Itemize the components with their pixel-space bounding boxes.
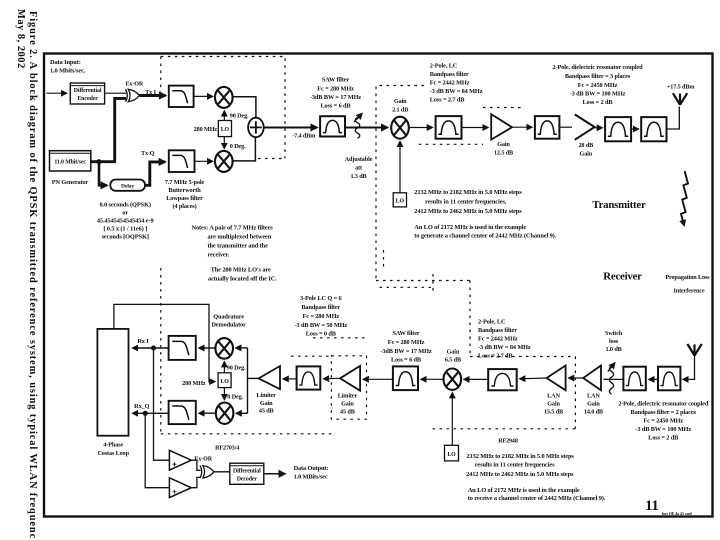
wire PN out (thick) (91, 160, 116, 163)
dashed box limiter2 (331, 356, 366, 419)
wire mixer RxQ to LPF (199, 412, 216, 414)
dashed line RX synth left edge (469, 281, 471, 357)
filter F1 lowpass Tx I (169, 86, 194, 107)
svg-text:6.5 dB: 6.5 dB (445, 357, 461, 364)
dashed segment under 3-pole text (313, 337, 369, 339)
svg-text:Gain: Gain (447, 349, 460, 356)
svg-text:LO: LO (221, 127, 230, 133)
wire summer to SAW (thick) (264, 126, 317, 128)
dashed line IC left edge bottom (160, 268, 162, 434)
wire mixer1 to LO (arrow up) (223, 111, 225, 121)
svg-text:-3 dB BW = 100 MHz: -3 dB BW = 100 MHz (635, 426, 691, 433)
svg-text:actually located off the IC.: actually located off the IC. (208, 276, 277, 283)
node junction RxQ (143, 411, 148, 416)
comparator U4 (169, 450, 191, 470)
svg-text:Differential: Differential (233, 469, 261, 475)
dashed segment TX modulator bottom right (258, 158, 285, 160)
wire LPF TxI to mixer (194, 95, 213, 97)
filter F2 lowpass Tx Q (169, 150, 195, 172)
wire xor2 to differential decoder (214, 471, 230, 473)
wire xor to LPF TxI (thick) (139, 94, 165, 97)
svg-text:Costas Loop: Costas Loop (97, 450, 129, 457)
costas loop box (97, 329, 128, 436)
wire chevron to BPF3 (595, 127, 603, 129)
svg-text:Transmitter: Transmitter (592, 199, 646, 211)
svg-text:Rx I: Rx I (137, 338, 149, 345)
wire LPF TxQ to mixer2 (195, 160, 213, 162)
svg-text:280 MHz: 280 MHz (194, 126, 218, 133)
svg-text:Encoder: Encoder (77, 96, 98, 102)
filter F7 BPF dielectric 2 (641, 117, 666, 141)
svg-text:1.3 dB: 1.3 dB (350, 173, 366, 180)
page frame (44, 54, 713, 517)
gate U2 XOR (126, 89, 140, 101)
wire BPF2 to gain chevron (559, 126, 572, 128)
svg-text:Bandpass filter = 3 places: Bandpass filter = 3 places (565, 73, 631, 80)
svg-text:-3 dB BW = 84 MHz: -3 dB BW = 84 MHz (430, 88, 483, 95)
svg-text:-3 dB BW = 84 MHz: -3 dB BW = 84 MHz (478, 344, 531, 351)
oscillator LO2 (393, 193, 406, 207)
dashed segment x433 vertical (432, 274, 434, 291)
svg-text:SAW filter: SAW filter (392, 330, 419, 337)
filter F4 BPF 2442 (436, 116, 462, 139)
svg-text:12.5 dB: 12.5 dB (494, 150, 513, 157)
wire BPF1 to amp (462, 127, 489, 129)
amplifier A4 LAN 15.5dB (547, 366, 566, 391)
svg-text:An LO of 2172 MHz is used in: An LO of 2172 MHz is used in the example (468, 487, 580, 494)
wire bus to mixer RxQ (236, 412, 247, 414)
svg-text:Loss = 0 dB: Loss = 0 dB (306, 331, 337, 338)
filter F11 SAW RX (393, 366, 418, 390)
wire SAW to attenuator to mixer3 (345, 126, 388, 128)
node junction PN (96, 159, 101, 164)
svg-text:Data Input:: Data Input: (50, 59, 81, 66)
wire limiter1 to demod bus (248, 377, 259, 379)
label LAN Gain 15.5 (544, 393, 563, 416)
svg-text:att: att (355, 165, 363, 172)
amplifier A2 28dB chevron (575, 114, 595, 139)
filter F13 LPF RxI (169, 336, 196, 360)
wire delay to LPF TxQ (thick) (145, 162, 165, 185)
svg-text:2-Pole, LC: 2-Pole, LC (430, 63, 458, 70)
MARGIN TEXTS (15, 9, 38, 539)
svg-text:Limiter: Limiter (256, 392, 276, 399)
wire PN up to xor (thick) (115, 98, 126, 161)
label 28 dB Gain (578, 142, 593, 158)
wire BPF RX2 through switch (604, 378, 624, 380)
wire mixer2 to summer (233, 137, 256, 161)
svg-text:15.5 dB: 15.5 dB (544, 409, 563, 416)
label SAW filter TX (310, 77, 361, 110)
label 4-Phase Costas Loop (97, 442, 129, 458)
mixer M4 downconverter (444, 369, 462, 390)
svg-text:280 MHz: 280 MHz (182, 380, 206, 387)
label delay seconds (97, 202, 154, 241)
wire LPF RxQ to costas (133, 412, 169, 414)
svg-text:Fc = 2442 MHz: Fc = 2442 MHz (478, 336, 518, 343)
label 2-Pole dielectric TX (552, 64, 643, 106)
svg-text:14.0 dB: 14.0 dB (584, 409, 603, 416)
svg-text:Figure 2. A block diagram of: Figure 2. A block diagram of the QPSK tr… (27, 11, 38, 539)
wire BPF LC to mixer RX (464, 378, 488, 380)
amplifier A3 LAN 14dB (583, 366, 601, 391)
amplifier A5 limiter 2 (340, 366, 360, 391)
svg-text:PN Generator: PN Generator (52, 179, 89, 186)
svg-text:Adjustable: Adjustable (345, 156, 373, 163)
svg-text:Notes: A pair of 7.7 MHz filte: Notes: A pair of 7.7 MHz filters (192, 225, 274, 232)
dashed line IC bottom (RF2703) (161, 433, 336, 435)
svg-text:Ex-OR: Ex-OR (125, 82, 143, 88)
svg-text:11: 11 (645, 498, 659, 514)
svg-text:receiver.: receiver. (208, 252, 230, 259)
wire LO4 to mixer RxQ (arrow down) (223, 388, 225, 400)
label 3-Pole LC BPF (295, 295, 348, 338)
wire LO3 to mixer RX (arrow up) (451, 393, 453, 446)
wire limiter2 to BPF 280 (324, 377, 341, 380)
label Gain 2.1 dB (392, 98, 408, 114)
svg-text:the transmitter and the: the transmitter and the (208, 243, 269, 250)
delay element (110, 180, 145, 191)
amplifier A6 limiter 1 (259, 366, 280, 389)
svg-text:Gain: Gain (580, 151, 593, 158)
antenna RX (687, 344, 701, 356)
svg-text:Loss = 6 dB: Loss = 6 dB (320, 103, 351, 110)
svg-text:2-Pole, LC: 2-Pole, LC (478, 319, 506, 326)
svg-text:Quadrature: Quadrature (213, 314, 244, 321)
filter F8 BPF dielectric RX 1 (658, 367, 680, 391)
wire BPF3 to BPF4 (631, 128, 638, 130)
label 2-Pole LC TX (430, 63, 483, 104)
wire BPF 280 to limiter1 (283, 378, 296, 380)
wire comp1 to xor2 (191, 460, 200, 470)
svg-text:The 280 MHz LO's are: The 280 MHz LO's are (211, 267, 271, 274)
svg-text:45.4545454545454 e-9: 45.4545454545454 e-9 (97, 218, 154, 225)
svg-text:Fc = 2450 MHz: Fc = 2450 MHz (643, 418, 683, 425)
svg-text:Receiver: Receiver (603, 271, 642, 283)
svg-text:Loss = 2.7 dB: Loss = 2.7 dB (430, 97, 465, 104)
wire LO2 to mixer3 (arrow up) (399, 142, 401, 193)
wire decoder to data output (264, 473, 285, 475)
mixer M1 (215, 87, 233, 108)
svg-text:LO: LO (396, 199, 405, 205)
encoder U1 Differential Encoder (70, 83, 104, 104)
label Gain 12.5 dB (494, 141, 513, 157)
svg-text:Bandpass filter: Bandpass filter (301, 304, 340, 311)
wire BPF4 to TX antenna (667, 107, 680, 130)
svg-text:Gain: Gain (547, 401, 560, 408)
svg-text:LAN: LAN (547, 393, 560, 400)
filter F6 BPF dielectric 1 (605, 117, 631, 141)
filter F5 BPF 2442 second (535, 116, 560, 139)
mixer M5 RxI (215, 338, 233, 359)
switch symbol (608, 363, 615, 394)
filter F14 LPF RxQ (169, 401, 196, 424)
dashed line RX synth top (470, 356, 575, 358)
amplifier A1 (491, 114, 512, 139)
mixer M6 RxQ (216, 403, 234, 424)
oscillator LO4 (218, 373, 231, 388)
svg-text:(4 places): (4 places) (172, 203, 196, 210)
svg-text:Butterworth: Butterworth (168, 187, 201, 194)
svg-text:45 dB: 45 dB (259, 408, 274, 415)
svg-text:to receive a channel center of: to receive a channel center of 2442 MHz … (468, 495, 606, 502)
svg-text:0 Deg.: 0 Deg. (227, 394, 243, 401)
svg-text:results in 11 center frequenc: results in 11 center frequencies, (425, 199, 507, 206)
svg-text:Gain: Gain (260, 400, 273, 407)
svg-text:Ex-OR: Ex-OR (194, 457, 212, 463)
svg-text:seconds [OQPSK]: seconds [OQPSK] (102, 234, 149, 241)
node junction RxI (151, 346, 156, 351)
svg-text:Fc = 2442 MHz: Fc = 2442 MHz (430, 80, 470, 87)
dashed line RX synth right (574, 357, 576, 429)
svg-text:2.1 dB: 2.1 dB (392, 107, 408, 114)
svg-text:Lowpass filter: Lowpass filter (166, 195, 203, 202)
svg-text:Rx_Q: Rx_Q (134, 403, 149, 410)
svg-text:LAN: LAN (587, 393, 600, 400)
svg-text:Propagation Loss: Propagation Loss (665, 274, 710, 281)
label 7.7MHz filter note (165, 179, 205, 210)
wire bus to mixer RxI (236, 347, 248, 349)
svg-text:Gain: Gain (497, 141, 510, 148)
svg-text:2132 MHz to 2182 MHz in 5.0: 2132 MHz to 2182 MHz in 5.0 MHz steps (414, 189, 522, 196)
svg-text:Loss = 2 dB: Loss = 2 dB (582, 99, 613, 106)
wire costas feedback to LO4 (114, 304, 215, 381)
gate U6 XOR output (200, 466, 214, 478)
svg-text:Switch: Switch (605, 330, 623, 337)
svg-text:Gain: Gain (587, 401, 600, 408)
svg-text:90 Deg.: 90 Deg. (227, 364, 246, 371)
wire mixer1 to summer (233, 97, 256, 118)
svg-text:to generate a channel center o: to generate a channel center of 2442 MHz… (414, 233, 556, 240)
dashed segment above TX amp (483, 107, 524, 109)
wire encoder to xor (105, 92, 126, 94)
attenuator adjustable (354, 114, 362, 139)
svg-text:results in 11 center frequenc: results in 11 center frequencies (475, 462, 555, 469)
svg-text:28 dB: 28 dB (578, 142, 593, 149)
svg-text:90 Deg.: 90 Deg. (230, 112, 249, 119)
svg-text:-3dB BW = 17 MHz: -3dB BW = 17 MHz (310, 94, 361, 101)
generator PN box 11.0 Mbit/sec (50, 151, 91, 171)
wire junction down to delay (thick) (99, 162, 107, 186)
wire mixer RX to SAW RX (421, 378, 443, 380)
wire RX antenna down to BPF (683, 356, 695, 380)
lightning bolt propagation (681, 171, 688, 226)
svg-text:+17.5 dBm: +17.5 dBm (667, 83, 695, 90)
svg-text:Loss = 2 dB: Loss = 2 dB (648, 435, 679, 442)
decoder U7 Differential Decoder (230, 463, 264, 484)
svg-text:SAW filter: SAW filter (322, 77, 349, 84)
svg-text:Limiter: Limiter (338, 393, 358, 400)
svg-text:Fc = 280 MHz: Fc = 280 MHz (388, 339, 425, 346)
label notes multiplexed (192, 225, 278, 283)
label Quadrature Demodulator (211, 314, 246, 329)
label RX synth frequencies (466, 453, 606, 502)
dashed box TX synthesizer (376, 86, 424, 281)
oscillator LO3 (445, 445, 459, 461)
dashed segment x383 vertical (383, 250, 385, 271)
filter F3 SAW 280MHz TX (320, 116, 345, 136)
svg-text:7.7 MHz 5-pole: 7.7 MHz 5-pole (165, 179, 205, 186)
dashed segment left of limiter2 (291, 355, 331, 357)
svg-text:Delay: Delay (121, 184, 134, 190)
svg-text:2412 MHz to 2462 MHz in 5.0: 2412 MHz to 2462 MHz in 5.0 MHz steps (466, 471, 574, 478)
label SAW filter RX (380, 330, 431, 364)
label 2-Pole LC RX (478, 319, 531, 360)
label Limiter Gain 45dB (1) (256, 392, 276, 415)
label 2-Pole dielectric RX (618, 401, 709, 442)
svg-text:2-Pole, dielectric resonator: 2-Pole, dielectric resonator coupled (552, 64, 643, 71)
label LAN Gain 14.0 (584, 393, 603, 416)
label TX synth frequencies (414, 189, 556, 240)
wire comp2 to xor2 (191, 477, 200, 487)
wire mixer3 to BPF1 (409, 127, 433, 129)
svg-text:RF2948: RF2948 (498, 438, 518, 444)
svg-text:loss: loss (609, 338, 619, 345)
svg-text:3-Pole LC Q = 6: 3-Pole LC Q = 6 (300, 295, 342, 302)
filter F12 BPF 280 RX (297, 366, 321, 389)
label Switch loss (605, 330, 623, 353)
wire RxQ junction to comparator2 (145, 413, 169, 487)
svg-text:Differential: Differential (74, 88, 102, 94)
wire data input arrow (47, 92, 67, 94)
wire SAW RX to limiter2 (363, 378, 393, 380)
svg-text:Bandpass filter = 2 places: Bandpass filter = 2 places (631, 409, 697, 416)
label Limiter Gain 45dB (2) (338, 393, 358, 416)
svg-text:Loss = 6 dB: Loss = 6 dB (391, 357, 422, 364)
label Gain 6.5 dB (445, 349, 461, 364)
svg-text:Gain: Gain (341, 401, 354, 408)
svg-text:Tx Q: Tx Q (141, 150, 155, 157)
wire switch to LAN amp2 (604, 378, 607, 380)
svg-text:Interference: Interference (674, 288, 705, 295)
wire mixer RxI to LPF (199, 347, 215, 349)
mixer M3 upconverter (391, 117, 409, 139)
wire RxI junction to comparator1 (154, 348, 170, 460)
svg-text:RF2703/4: RF2703/4 (215, 446, 239, 452)
node Data Input (50, 59, 86, 75)
svg-text:1.0 dB: 1.0 dB (606, 346, 622, 353)
svg-text:LO: LO (447, 452, 456, 458)
comparator U5 (169, 478, 191, 498)
svg-text:An LO of 2172 MHz is used in: An LO of 2172 MHz is used in the example (414, 224, 526, 231)
filter F10 BPF LC RX (488, 369, 517, 390)
svg-text:are multiplexed between: are multiplexed between (208, 234, 272, 241)
svg-text:Loss = 2.7 dB: Loss = 2.7 dB (478, 353, 513, 360)
label Data Output (294, 465, 329, 481)
svg-text:Fc = 280 MHz: Fc = 280 MHz (317, 85, 354, 92)
svg-text:Gain: Gain (394, 98, 407, 105)
svg-text:Demodulator: Demodulator (211, 322, 246, 329)
svg-text:Bandpass filter: Bandpass filter (430, 71, 469, 78)
wire demod bus vertical (247, 348, 249, 413)
oscillator LO1 280 MHz (218, 121, 231, 137)
svg-text:Fc = 2450 MHz: Fc = 2450 MHz (578, 82, 618, 89)
dashed segment TX synthesizer bottom (376, 280, 470, 282)
svg-text:4-Phase: 4-Phase (103, 442, 123, 449)
wire LO4 to mixer RxI (arrow up) (223, 362, 225, 373)
svg-text:fort OE 4a 41 conf: fort OE 4a 41 conf (662, 511, 693, 516)
filter F9 BPF dielectric RX 2 (623, 367, 645, 391)
svg-text:Data Output:: Data Output: (294, 465, 329, 472)
svg-text:-7.4 dBm: -7.4 dBm (292, 133, 316, 140)
svg-text:2412 MHz to 2462 MHz in 5.0: 2412 MHz to 2462 MHz in 5.0 MHz steps (414, 208, 522, 215)
svg-text:0.0 seconds (QPSK): 0.0 seconds (QPSK) (99, 202, 151, 209)
svg-text:11.0 Mbit/sec: 11.0 Mbit/sec (54, 160, 86, 166)
svg-text:[ 0.5 x (1 / 11e6) ]: [ 0.5 x (1 / 11e6) ] (103, 226, 147, 233)
label adjustable att (345, 156, 373, 180)
dashed line RX synth bottom (433, 428, 576, 430)
svg-text:1.0 Mbits/sec.: 1.0 Mbits/sec. (50, 68, 86, 75)
mixer M2 (215, 151, 233, 172)
svg-text:2132 MHz to 2182 MHz in 5.0: 2132 MHz to 2182 MHz in 5.0 MHz steps (467, 453, 575, 460)
svg-text:Bandpass filter: Bandpass filter (478, 327, 517, 334)
svg-text:-3 dB BW = 50 MHz: -3 dB BW = 50 MHz (295, 322, 348, 329)
antenna TX (673, 93, 687, 105)
dashed segment under TX BPF1 (419, 143, 483, 145)
wire BPF RX1 to BPF RX2 (649, 378, 658, 380)
svg-text:or: or (122, 210, 128, 217)
svg-text:LO: LO (220, 379, 229, 385)
svg-text:-3 dB BW = 100 MHz: -3 dB BW = 100 MHz (570, 91, 626, 98)
svg-text:0 Deg.: 0 Deg. (230, 143, 246, 150)
dashed box TX modulator top (161, 57, 285, 159)
wire LO to mixer2 (arrow down) (223, 137, 225, 149)
svg-text:May 8, 2002: May 8, 2002 (15, 9, 26, 68)
wire LAN2 to LAN1 (569, 377, 584, 379)
wire amp to BPF2 (512, 126, 532, 128)
dashed segment y287 horizontal (380, 286, 435, 288)
wire LAN1 to BPF LC RX (520, 377, 547, 380)
svg-text:-3dB BW = 17 MHz: -3dB BW = 17 MHz (380, 348, 431, 355)
dashed line IC left edge top (160, 57, 162, 93)
svg-text:45 dB: 45 dB (340, 409, 355, 416)
wire LPF RxI to costas (133, 347, 169, 349)
summer U3 (248, 118, 264, 137)
svg-text:1.0 MBits/sec: 1.0 MBits/sec (294, 474, 328, 481)
svg-text:Fc = 280 MHz: Fc = 280 MHz (303, 313, 340, 320)
svg-text:Decoder: Decoder (237, 477, 258, 483)
svg-text:2-Pole, dielectric resonator: 2-Pole, dielectric resonator coupled (618, 401, 709, 408)
